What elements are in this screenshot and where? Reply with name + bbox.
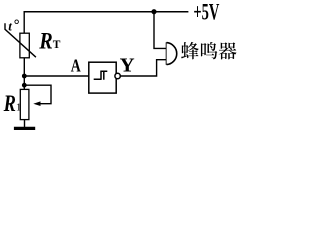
svg-text:+5V: +5V (193, 0, 219, 25)
R1 wiper arrowhead (33, 101, 40, 106)
wire: rail to RT top (23, 11, 25, 33)
node dot to wiper (22, 83, 27, 88)
svg-text:Y: Y (120, 55, 136, 77)
label buzzer char qi (219, 42, 237, 59)
svg-text:R: R (3, 91, 16, 116)
thermistor strike mark (5, 23, 36, 57)
buzzer dome (167, 43, 177, 65)
svg-text:R: R (38, 28, 52, 53)
svg-text:T: T (53, 39, 61, 51)
resistor R1 body (20, 89, 29, 119)
svg-text:°: ° (14, 17, 20, 33)
hysteresis symbol (94, 71, 108, 80)
svg-text:t: t (8, 19, 12, 34)
inversion bubble (115, 73, 120, 78)
wire: node A horizontal (24, 75, 89, 77)
svg-text:1: 1 (16, 102, 22, 114)
svg-text:A: A (71, 56, 81, 76)
wire: RT bottom to R1 top (23, 58, 25, 90)
wire: R1 wiper link (24, 85, 51, 104)
wire: +5V top rail (24, 11, 189, 13)
wire: R1 bottom to ground (24, 120, 26, 128)
label buzzer char ming (201, 42, 217, 59)
label buzzer char feng (181, 42, 199, 59)
node dot to A wire (22, 74, 27, 79)
buzzer flat bar (166, 42, 168, 65)
node junction dot on +5V rail (151, 9, 156, 14)
resistor RT (thermistor) body (20, 33, 29, 58)
wire: rail dot down to buzzer top lead (154, 12, 166, 49)
wire: Y output to buzzer bottom lead (120, 60, 166, 76)
ground bar (14, 127, 35, 130)
op-amp U1: schmitt trigger inverter box (89, 62, 116, 93)
